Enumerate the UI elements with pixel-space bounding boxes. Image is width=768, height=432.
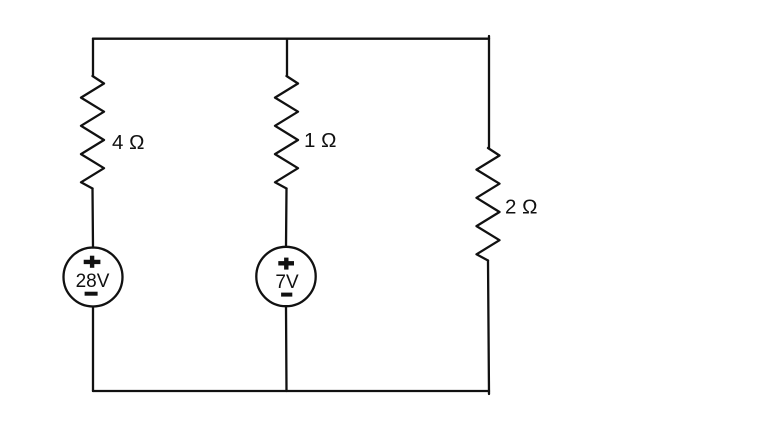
wire R2 to V2 [285,189,288,247]
wire R1 to V1 [91,189,94,248]
wire bottom rail [93,390,489,392]
wire left branch upper [92,39,94,76]
resistor R3 2ohm [477,148,500,261]
svg-text:7V: 7V [275,272,299,293]
wire V2 to bottom rail [285,306,288,391]
wire right branch lower [488,261,489,395]
svg-text:2 Ω: 2 Ω [505,196,537,219]
voltage source V1 28V circle [64,248,123,307]
V1 plus terminal [84,256,101,268]
wire V1 to bottom rail [92,307,94,392]
voltage source V2 7V circle [256,247,315,306]
wire top rail [93,38,489,40]
resistor R1 4ohm [81,76,104,189]
svg-text:28V: 28V [76,271,110,292]
wire middle branch upper [286,39,288,76]
svg-text:4 Ω: 4 Ω [112,131,144,154]
wire right branch upper [488,36,490,148]
V1 minus terminal [85,292,98,296]
svg-text:1 Ω: 1 Ω [304,129,336,152]
resistor R2 1ohm [275,76,298,189]
V2 minus terminal [281,293,292,297]
V2 plus terminal [278,258,294,270]
